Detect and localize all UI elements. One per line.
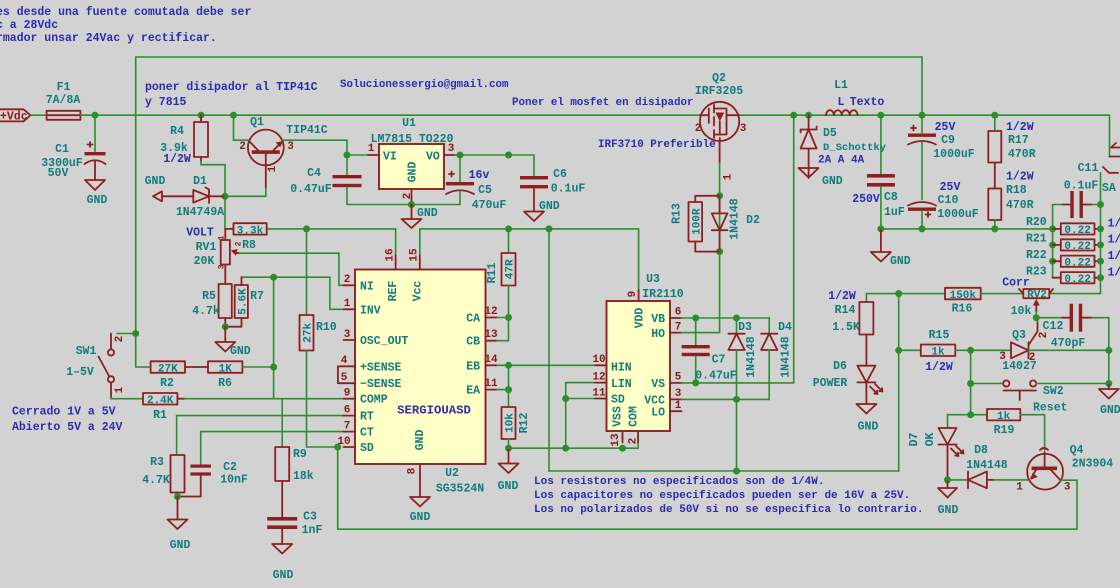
- junction SW2 right: [1105, 380, 1112, 387]
- svg-text:OK: OK: [924, 433, 937, 447]
- svg-text:R16: R16: [952, 303, 973, 316]
- ground under U1: [402, 205, 438, 229]
- capacitor C1: [41, 115, 105, 180]
- svg-text:Q3: Q3: [1012, 329, 1026, 342]
- wire R4 bottom to D1 node: [201, 161, 225, 229]
- junction VCC D3: [733, 396, 740, 403]
- wire C11 left column: [1052, 205, 1054, 278]
- svg-text:R18: R18: [1006, 184, 1027, 197]
- svg-text:F1: F1: [57, 81, 71, 94]
- svg-text:IRF3710 Preferible: IRF3710 Preferible: [598, 139, 716, 151]
- resistor R12 10k: [502, 390, 531, 449]
- svg-text:Los capacitores no especificad: Los capacitores no especificados pueden …: [534, 490, 910, 502]
- svg-text:HO: HO: [651, 328, 665, 341]
- diode D2 1N4148: [712, 198, 760, 249]
- svg-text:3: 3: [287, 141, 294, 153]
- U2 pin stubs left: [344, 285, 356, 447]
- svg-text:10k: 10k: [505, 413, 517, 433]
- svg-text:4: 4: [341, 355, 348, 367]
- U2 pin stub bottom: [419, 464, 421, 478]
- svg-text:GND: GND: [498, 480, 519, 493]
- svg-text:GND: GND: [539, 200, 560, 213]
- junction R13 D2 bottom: [716, 248, 723, 255]
- svg-text:R3: R3: [150, 456, 164, 469]
- svg-text:LM7815 TO220: LM7815 TO220: [371, 133, 454, 146]
- wire INV column down to COMP row: [273, 277, 275, 399]
- svg-text:IR2110: IR2110: [642, 288, 684, 301]
- svg-text:0.47uF: 0.47uF: [290, 183, 332, 196]
- svg-text:GND: GND: [938, 504, 959, 517]
- svg-text:Q1: Q1: [250, 116, 264, 129]
- wire main rail right of Q2: [739, 115, 1109, 156]
- wire Vcc pin15 riser: [419, 229, 421, 255]
- svg-text:10nF: 10nF: [220, 474, 248, 487]
- svg-text:U2: U2: [445, 467, 459, 480]
- svg-text:3: 3: [740, 123, 747, 135]
- capacitor C2 10nF: [178, 461, 248, 497]
- junction C8 bottom: [877, 225, 884, 232]
- svg-text:L1: L1: [834, 79, 848, 92]
- svg-text:C7: C7: [712, 354, 726, 367]
- svg-text:Corr: Corr: [1002, 277, 1030, 290]
- svg-text:R12: R12: [518, 413, 531, 434]
- junction C6 branch: [505, 152, 512, 159]
- svg-text:470R: 470R: [1008, 148, 1036, 161]
- svg-text:C9: C9: [941, 134, 955, 147]
- svg-text:8: 8: [407, 467, 419, 474]
- svg-text:1/2W: 1/2W: [828, 290, 856, 303]
- svg-text:Solucionessergio@gmail.com: Solucionessergio@gmail.com: [340, 79, 509, 91]
- svg-text:1000uF: 1000uF: [937, 208, 979, 221]
- ground under C1: [85, 180, 107, 207]
- diode D5 schottky: [801, 115, 887, 178]
- svg-text:2: 2: [628, 438, 640, 445]
- junction SW1 top: [132, 330, 139, 337]
- svg-text:SW1: SW1: [76, 345, 97, 358]
- svg-text:18k: 18k: [293, 470, 314, 483]
- svg-text:−SENSE: −SENSE: [360, 378, 402, 391]
- svg-text:2: 2: [1029, 352, 1036, 364]
- transistor Q4 2N3904: [1016, 444, 1113, 529]
- svg-text:SD: SD: [360, 442, 374, 455]
- junction R5 R7 gnd: [222, 323, 229, 330]
- junction LIN SD column base: [562, 445, 569, 452]
- junction C10 bottom: [919, 225, 926, 232]
- svg-text:11: 11: [484, 378, 498, 390]
- resistor R15 1k: [921, 329, 1011, 374]
- wire 15V node column: [866, 294, 945, 471]
- svg-text:OSC_OUT: OSC_OUT: [360, 335, 408, 348]
- svg-text:R5: R5: [202, 290, 216, 303]
- ground under R5 R7: [215, 327, 251, 358]
- svg-text:C5: C5: [478, 184, 492, 197]
- resistor R3 4.7K: [142, 455, 184, 497]
- svg-text:VI: VI: [383, 151, 397, 164]
- U3 pin stubs: [638, 290, 640, 301]
- svg-text:IRF3205: IRF3205: [695, 85, 743, 98]
- svg-text:R21: R21: [1026, 233, 1047, 246]
- U2 pin stubs top: [396, 255, 420, 269]
- wire VCC row: [682, 399, 737, 471]
- svg-text:6: 6: [675, 307, 682, 319]
- junction R18 bottom: [991, 225, 998, 232]
- svg-text:1: 1: [344, 298, 351, 310]
- svg-text:5.6K: 5.6K: [238, 288, 250, 315]
- diode D4 1N4148: [737, 321, 793, 399]
- svg-text:EB: EB: [466, 360, 480, 373]
- svg-text:R1: R1: [153, 409, 167, 422]
- svg-text:2: 2: [1038, 332, 1050, 339]
- svg-text:GND: GND: [858, 421, 879, 434]
- svg-text:6: 6: [344, 405, 351, 417]
- resistor R21 0.22: [1026, 233, 1120, 254]
- svg-text:2: 2: [695, 123, 702, 135]
- resistor R5 4.7k: [192, 284, 232, 327]
- svg-text:RV1: RV1: [196, 241, 217, 254]
- svg-text:VDD: VDD: [634, 308, 647, 329]
- svg-text:CT: CT: [360, 427, 374, 440]
- svg-text:50V: 50V: [48, 167, 69, 180]
- junction R11 top: [505, 225, 512, 232]
- svg-text:SG3524N: SG3524N: [436, 483, 484, 496]
- svg-text:D5: D5: [823, 127, 837, 140]
- capacitor C5 470uF: [446, 155, 506, 212]
- capacitor C3 1nF: [267, 511, 322, 545]
- svg-text:1/2W: 1/2W: [163, 153, 191, 166]
- svg-text:GND: GND: [230, 345, 251, 358]
- wire SW1 bottom to R1: [111, 398, 143, 399]
- svg-text:25V: 25V: [940, 181, 961, 194]
- junction CA: [505, 314, 512, 321]
- diode D3 1N4148: [728, 318, 757, 399]
- svg-text:VB: VB: [651, 313, 665, 326]
- svg-text:TIP41C: TIP41C: [286, 124, 328, 137]
- resistor R1 2.4K: [143, 393, 185, 422]
- junction R12 bottom: [505, 445, 512, 452]
- resistor R11 47R: [486, 229, 517, 318]
- svg-text:1.5K: 1.5K: [832, 321, 860, 334]
- svg-text:3: 3: [448, 143, 455, 155]
- svg-text:SERGIOUASD: SERGIOUASD: [397, 404, 471, 418]
- svg-text:470pF: 470pF: [1051, 337, 1086, 350]
- svg-text:D3: D3: [738, 321, 752, 334]
- svg-text:U3: U3: [646, 273, 660, 286]
- svg-text:U1: U1: [402, 117, 416, 130]
- resistor R9 18k: [275, 399, 314, 517]
- svg-text:INV: INV: [360, 304, 381, 317]
- svg-text:R4: R4: [170, 125, 184, 138]
- junction R15 left: [895, 347, 902, 354]
- wire Vcc REF rail y=228.9: [267, 228, 396, 230]
- junction R19 left: [967, 411, 974, 418]
- svg-text:R19: R19: [994, 424, 1015, 437]
- svg-text:+Vdc: +Vdc: [0, 111, 28, 124]
- fuse F1: [46, 81, 81, 120]
- svg-text:HIN: HIN: [611, 362, 632, 375]
- svg-text:R15: R15: [929, 329, 950, 342]
- svg-text:9: 9: [344, 388, 351, 400]
- svg-text:1: 1: [218, 235, 227, 240]
- svg-text:2A A 4A: 2A A 4A: [818, 155, 865, 167]
- label +Vdc input: [0, 109, 31, 121]
- capacitor C12 470pF: [1036, 304, 1109, 351]
- capacitor C7 0.47uF: [682, 318, 737, 383]
- svg-text:D2: D2: [746, 214, 760, 227]
- svg-text:0.22: 0.22: [1064, 258, 1090, 270]
- svg-text:C4: C4: [307, 167, 321, 180]
- svg-text:1N4148: 1N4148: [745, 336, 758, 378]
- svg-text:9: 9: [627, 291, 639, 298]
- potentiometer RV2 10k: [1002, 277, 1053, 319]
- svg-text:1N4148: 1N4148: [780, 336, 793, 378]
- svg-text:R13: R13: [671, 203, 684, 224]
- junction R15 right: [967, 347, 974, 354]
- svg-text:1: 1: [675, 400, 682, 412]
- svg-text:5: 5: [341, 372, 348, 384]
- ground under C6: [524, 200, 560, 221]
- potentiometer RV1 20K: [194, 229, 240, 284]
- switch SW1: [66, 334, 136, 398]
- svg-text:1: 1: [1016, 482, 1023, 494]
- wire right gnd column: [1108, 350, 1110, 383]
- svg-text:RV2: RV2: [1027, 290, 1047, 302]
- capacitor C11 0.1uF: [1053, 162, 1101, 218]
- svg-text:470uF: 470uF: [472, 199, 507, 212]
- svg-text:SA: SA: [1102, 182, 1116, 195]
- svg-text:Reset: Reset: [1033, 402, 1068, 415]
- svg-text:100R: 100R: [691, 208, 703, 235]
- wire SD drop to bottom rail: [337, 447, 339, 529]
- svg-text:Cerrado 1V a 5V: Cerrado 1V a 5V: [12, 406, 116, 419]
- svg-text:1/2W: 1/2W: [1108, 218, 1120, 231]
- svg-text:C1: C1: [55, 143, 69, 156]
- svg-text:1/2W: 1/2W: [1108, 250, 1120, 263]
- svg-text:11: 11: [592, 388, 606, 400]
- resistor R4: [160, 115, 208, 166]
- svg-text:COM: COM: [628, 406, 641, 427]
- junction VSS pin13: [619, 445, 626, 452]
- junction VCC D3 column: [733, 468, 740, 475]
- svg-text:rmador unsar 24Vac y rectifica: rmador unsar 24Vac y rectificar.: [0, 32, 217, 45]
- IC U3 IR2110: [592, 273, 683, 447]
- svg-text:VSS: VSS: [612, 406, 625, 427]
- svg-text:3: 3: [675, 388, 682, 400]
- capacitor C8 1uF: [852, 115, 905, 229]
- svg-text:1: 1: [114, 386, 126, 393]
- svg-text:LIN: LIN: [611, 378, 632, 391]
- svg-text:2N3904: 2N3904: [1072, 458, 1114, 471]
- junction VO: [457, 152, 464, 159]
- resistor R23 0.22: [1026, 266, 1120, 287]
- junction D1 node: [222, 193, 229, 200]
- resistor R8 3.3k: [225, 223, 266, 252]
- junction rail C9: [919, 112, 926, 119]
- wire SW1 branch column: [970, 350, 972, 414]
- svg-text:Los no polarizados de 50V si n: Los no polarizados de 50V si no se espec…: [534, 504, 923, 516]
- transistor Q1 TIP41C: [225, 115, 347, 196]
- transistor Q2 IRF3205 mosfet: [695, 72, 747, 180]
- junction rail at Q1 branch: [230, 112, 237, 119]
- resistor R13 100R: [671, 196, 720, 252]
- svg-text:5: 5: [675, 372, 682, 384]
- junction U1 gnd: [408, 201, 415, 208]
- svg-text:VS: VS: [651, 378, 665, 391]
- svg-text:27k: 27k: [303, 323, 315, 343]
- wire bottom long rail: [338, 528, 1077, 530]
- capacitor C6 0.1uF: [520, 168, 585, 212]
- svg-text:150k: 150k: [950, 290, 977, 302]
- svg-text:RT: RT: [360, 411, 374, 424]
- wire LIN SD column: [566, 383, 595, 449]
- regulator U1 LM7815: [368, 117, 455, 199]
- ground under R3: [168, 497, 191, 553]
- svg-text:GND: GND: [822, 175, 843, 188]
- wire Vcc branch x549: [548, 229, 550, 471]
- resistor R16 150k: [945, 288, 1023, 316]
- junction Q3 cathode right: [1105, 347, 1112, 354]
- svg-text:c a 28Vdc: c a 28Vdc: [0, 19, 58, 32]
- svg-text:25V: 25V: [935, 121, 956, 134]
- capacitor C9 1000uF: [908, 115, 975, 199]
- svg-text:14: 14: [484, 354, 498, 366]
- svg-text:GND: GND: [410, 511, 431, 524]
- svg-text:1K: 1K: [219, 364, 233, 376]
- svg-text:12: 12: [484, 306, 497, 318]
- svg-text:16: 16: [385, 248, 397, 261]
- svg-text:2: 2: [235, 241, 244, 246]
- wire VO node: [455, 154, 509, 156]
- ground under D7: [938, 480, 959, 517]
- led D6 POWER: [813, 360, 883, 404]
- junction EA: [505, 386, 512, 393]
- svg-text:16v: 16v: [469, 169, 490, 182]
- junction U3 SD branch: [562, 395, 569, 402]
- junction R3 C2 gnd: [174, 493, 181, 500]
- svg-text:250V: 250V: [852, 193, 880, 206]
- svg-text:EA: EA: [466, 385, 480, 398]
- wire Q2 source down: [719, 163, 721, 252]
- wire VB row: [682, 318, 770, 334]
- svg-text:CB: CB: [466, 336, 480, 349]
- svg-text:es desde una fuente comutada d: es desde una fuente comutada debe ser: [0, 6, 251, 19]
- resistor R2 27K: [151, 361, 208, 390]
- svg-text:VO: VO: [426, 151, 440, 164]
- wire CA CB join: [497, 318, 509, 341]
- svg-text:SD: SD: [611, 394, 625, 407]
- wire HO row to switch node: [682, 252, 720, 333]
- svg-text:4.7K: 4.7K: [142, 474, 170, 487]
- svg-text:C11: C11: [1078, 162, 1099, 175]
- connector edge cut off: [1101, 143, 1120, 205]
- svg-text:C8: C8: [884, 191, 898, 204]
- svg-text:GND: GND: [890, 255, 911, 268]
- svg-text:LO: LO: [651, 406, 665, 419]
- svg-text:R8: R8: [242, 239, 256, 252]
- U2 sense bracket pins 4 5: [338, 366, 355, 383]
- svg-text:R11: R11: [486, 263, 499, 284]
- svg-text:1uF: 1uF: [884, 206, 905, 219]
- wire REF pin16 riser: [395, 229, 397, 255]
- IC U2 SG3524N: [337, 248, 498, 495]
- svg-text:poner disipador al TIP41C: poner disipador al TIP41C: [145, 81, 318, 94]
- switch SW2 reset: [971, 380, 1109, 414]
- svg-text:COMP: COMP: [360, 394, 388, 407]
- svg-text:R6: R6: [218, 377, 232, 390]
- resistor R22 0.22: [1026, 249, 1120, 270]
- junction R6 right: [270, 364, 277, 371]
- resistor R7 5.6K: [225, 277, 264, 327]
- wire VI: [347, 154, 368, 156]
- svg-text:Texto: Texto: [850, 96, 885, 109]
- svg-text:REF: REF: [387, 281, 400, 302]
- junction x549 branch: [546, 225, 553, 232]
- resistor R18 470R: [988, 171, 1033, 229]
- svg-text:GND: GND: [170, 539, 191, 552]
- junction D7 bottom: [944, 476, 951, 483]
- svg-text:3: 3: [218, 264, 227, 269]
- svg-text:13: 13: [610, 433, 622, 447]
- wire main rail left: [80, 114, 700, 116]
- ground under D5: [799, 168, 843, 188]
- svg-text:GND: GND: [1100, 404, 1120, 417]
- svg-text:1k: 1k: [997, 411, 1011, 423]
- svg-text:1N4148: 1N4148: [729, 198, 742, 240]
- resistor R19 1k: [971, 409, 1045, 450]
- svg-text:1: 1: [723, 173, 735, 180]
- svg-text:7A/8A: 7A/8A: [46, 94, 81, 107]
- svg-text:CA: CA: [466, 313, 480, 326]
- ground under C8: [871, 229, 911, 268]
- svg-text:3: 3: [999, 351, 1006, 363]
- wire VO to C6: [509, 155, 535, 176]
- svg-text:27K: 27K: [158, 364, 178, 376]
- svg-text:GND: GND: [273, 569, 294, 582]
- svg-text:Q2: Q2: [712, 72, 726, 85]
- svg-text:1N4749A: 1N4749A: [176, 206, 224, 219]
- svg-text:D6: D6: [833, 360, 847, 373]
- wire EB EA join: [497, 365, 509, 389]
- svg-text:NI: NI: [360, 280, 374, 293]
- U2 pin stubs right: [486, 318, 498, 390]
- svg-text:D_Schottky: D_Schottky: [823, 142, 887, 154]
- svg-text:10: 10: [592, 354, 605, 366]
- svg-text:R22: R22: [1026, 249, 1047, 262]
- svg-text:15: 15: [409, 248, 421, 262]
- wire RV1 wiper to NI: [240, 253, 344, 285]
- junction C7 top: [692, 315, 699, 322]
- junction rail at C1: [92, 112, 99, 119]
- svg-text:Q4: Q4: [1070, 444, 1084, 457]
- wire U3 SD row: [566, 398, 595, 400]
- junction R16 left: [895, 290, 902, 297]
- svg-text:R2: R2: [160, 377, 174, 390]
- svg-text:R20: R20: [1026, 216, 1047, 229]
- resistor R17 470R: [988, 115, 1035, 188]
- svg-text:R10: R10: [316, 321, 337, 334]
- svg-text:0.22: 0.22: [1064, 241, 1090, 253]
- svg-text:2: 2: [239, 141, 246, 153]
- wire COMP row: [185, 398, 344, 400]
- ground under D6: [856, 404, 878, 434]
- junction rail at R4: [198, 112, 205, 119]
- svg-text:0.22: 0.22: [1064, 274, 1090, 286]
- capacitor C10 1000uF: [908, 181, 979, 229]
- svg-text:1N4148: 1N4148: [966, 459, 1008, 472]
- ground under R12: [498, 448, 519, 493]
- wire D7 branch: [948, 415, 971, 428]
- svg-text:L: L: [838, 96, 845, 109]
- svg-text:0.1uF: 0.1uF: [551, 183, 586, 196]
